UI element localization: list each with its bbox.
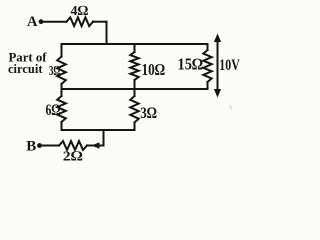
resistor 10ohm — [130, 52, 138, 80]
svg-text:3Ω: 3Ω — [140, 105, 157, 122]
svg-text:6Ω: 6Ω — [46, 102, 61, 119]
wire stub A down to top bus — [106, 22, 108, 44]
resistor 3ohm lower — [130, 96, 138, 123]
wire right rail lower lead — [207, 82, 209, 89]
svg-text:3Ω: 3Ω — [49, 64, 61, 79]
wire left rail middle lead — [61, 84, 63, 96]
wire middle rail upper lead — [134, 44, 136, 52]
wire left rail lower lead — [61, 122, 63, 130]
resistor 15ohm — [203, 50, 211, 82]
voltage arrowhead down — [214, 89, 221, 98]
resistor 2ohm — [59, 141, 87, 150]
wire middle rail center lead — [134, 80, 136, 96]
resistor 4ohm — [67, 17, 94, 26]
wire bottom bus — [62, 129, 135, 131]
voltage arrow 10V line — [217, 39, 219, 93]
resistor 6ohm — [57, 96, 66, 122]
voltage arrowhead up — [214, 34, 221, 43]
svg-text:4Ω: 4Ω — [71, 4, 89, 19]
svg-text:10Ω: 10Ω — [142, 60, 166, 79]
svg-text:circuit: circuit — [8, 61, 43, 76]
wire middle bus — [62, 88, 208, 90]
current arrowhead on B wire — [92, 142, 100, 148]
wire top bus — [62, 43, 208, 45]
svg-text:15Ω: 15Ω — [178, 54, 204, 73]
svg-text:B: B — [26, 139, 36, 155]
terminal A dot — [39, 19, 44, 24]
wire stub B up to bottom bus — [103, 130, 105, 146]
svg-text:10V: 10V — [219, 57, 240, 74]
wire 2ohm to stub with current arrow — [87, 145, 104, 147]
wire right rail upper lead — [207, 44, 209, 50]
scan speck — [230, 106, 232, 109]
wire middle rail lower lead — [134, 123, 136, 131]
svg-text:A: A — [27, 14, 38, 30]
wire left rail upper lead — [61, 44, 63, 57]
wire B to resistor 2ohm — [40, 145, 60, 147]
terminal B dot — [37, 143, 42, 148]
wire A to resistor 4ohm — [41, 21, 67, 23]
svg-text:2Ω: 2Ω — [63, 150, 83, 165]
resistor 3ohm left — [57, 57, 66, 85]
wire 4ohm to corner — [93, 21, 107, 23]
